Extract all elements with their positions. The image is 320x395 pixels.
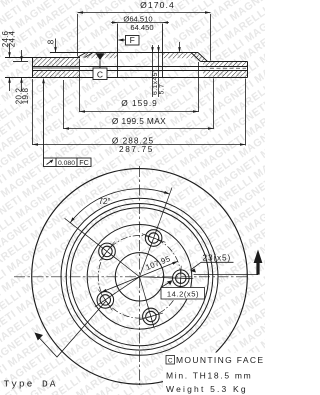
svg-text:C: C	[97, 70, 103, 80]
svg-text:23(x5): 23(x5)	[202, 253, 231, 262]
svg-text:8: 8	[47, 39, 56, 44]
svg-text:14.2(x5): 14.2(x5)	[167, 290, 199, 299]
svg-text:FC: FC	[79, 158, 89, 167]
svg-text:Ø 159.9: Ø 159.9	[121, 98, 158, 108]
svg-text:19.8: 19.8	[21, 87, 30, 104]
svg-text:Ø170.4: Ø170.4	[140, 0, 175, 10]
svg-text:Min. TH18.5 mm: Min. TH18.5 mm	[166, 371, 252, 381]
svg-text:MOUNTING FACE: MOUNTING FACE	[176, 355, 264, 365]
svg-text:F: F	[130, 35, 135, 45]
svg-text:5.7: 5.7	[159, 84, 166, 95]
svg-text:Weight 5.3 Kg: Weight 5.3 Kg	[166, 384, 248, 394]
svg-text:24.4: 24.4	[8, 30, 17, 47]
svg-text:287.75: 287.75	[119, 144, 154, 154]
svg-text:Type DA: Type DA	[4, 379, 58, 390]
svg-text:6.1x45°: 6.1x45°	[151, 69, 159, 95]
svg-text:0.080: 0.080	[58, 160, 75, 167]
svg-text:C: C	[168, 357, 173, 364]
svg-text:64.450: 64.450	[130, 23, 153, 32]
svg-text:72°: 72°	[98, 197, 110, 206]
svg-text:Ø 199.5 MAX: Ø 199.5 MAX	[112, 116, 166, 126]
